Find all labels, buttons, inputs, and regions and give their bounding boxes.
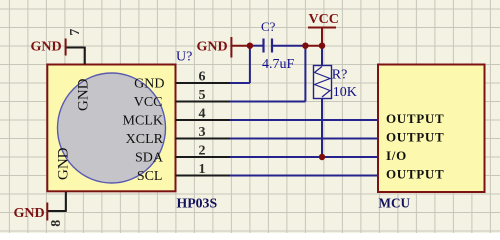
svg-text:4: 4 <box>199 107 206 122</box>
svg-text:R?: R? <box>332 67 348 82</box>
svg-text:OUTPUT: OUTPUT <box>386 130 444 145</box>
svg-text:2: 2 <box>199 144 206 159</box>
svg-text:3: 3 <box>199 125 206 140</box>
svg-text:GND: GND <box>197 39 228 54</box>
svg-text:10K: 10K <box>333 85 357 100</box>
svg-text:6: 6 <box>199 70 206 85</box>
svg-text:XCLR: XCLR <box>126 132 164 147</box>
svg-text:VCC: VCC <box>309 12 339 27</box>
svg-text:VCC: VCC <box>134 95 163 110</box>
svg-text:1: 1 <box>199 162 206 177</box>
svg-text:SCL: SCL <box>137 169 163 184</box>
svg-text:U?: U? <box>176 50 192 65</box>
svg-text:I/O: I/O <box>386 148 407 163</box>
svg-text:OUTPUT: OUTPUT <box>386 111 444 126</box>
svg-text:GND: GND <box>14 206 45 221</box>
svg-text:MCLK: MCLK <box>123 114 163 129</box>
svg-text:8: 8 <box>49 220 64 227</box>
svg-text:GND: GND <box>56 147 72 180</box>
svg-text:OUTPUT: OUTPUT <box>386 167 444 182</box>
svg-text:7: 7 <box>68 29 83 36</box>
svg-text:4.7uF: 4.7uF <box>262 57 295 72</box>
svg-text:SDA: SDA <box>135 151 164 166</box>
svg-text:GND: GND <box>134 77 164 92</box>
svg-text:MCU: MCU <box>379 195 411 210</box>
svg-text:GND: GND <box>76 78 92 111</box>
svg-text:5: 5 <box>199 88 206 103</box>
svg-text:C?: C? <box>261 19 276 34</box>
svg-text:HP03S: HP03S <box>177 196 218 211</box>
svg-text:GND: GND <box>31 40 62 55</box>
